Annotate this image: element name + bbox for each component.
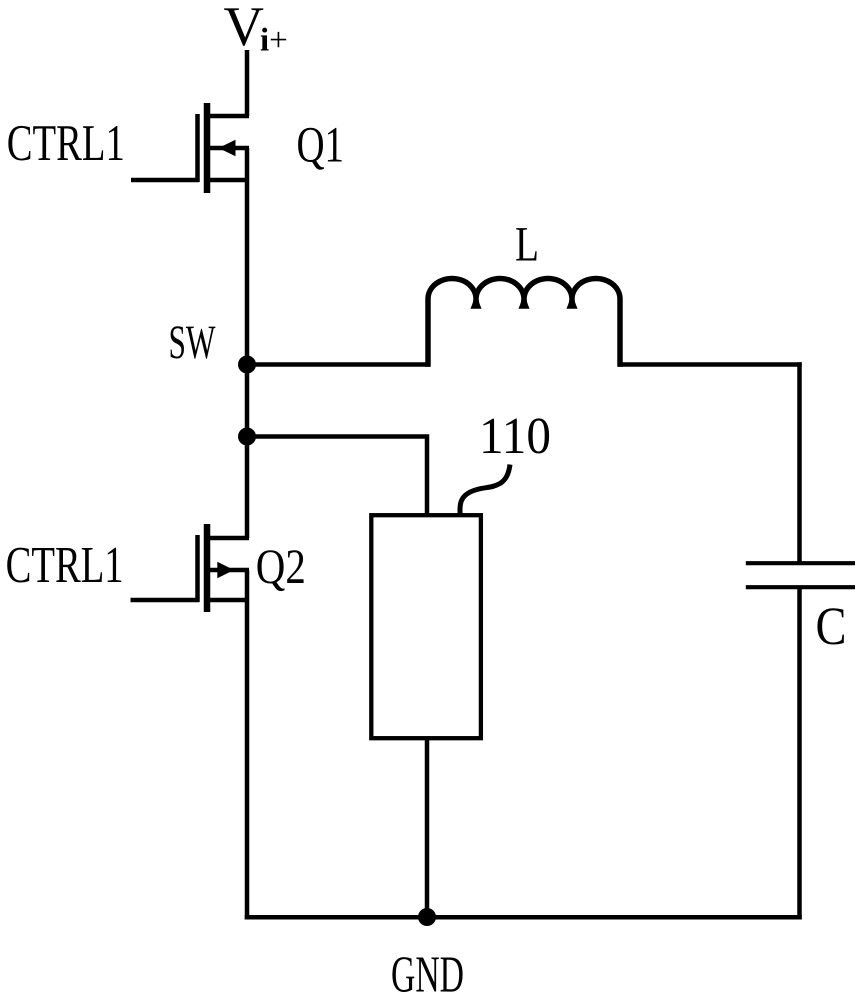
svg-text:110: 110 xyxy=(479,408,551,465)
wire block 110 to GND xyxy=(425,738,430,917)
svg-text:CTRL1: CTRL1 xyxy=(6,537,124,594)
transistor Q1 xyxy=(198,103,250,193)
svg-text:i+: i+ xyxy=(260,23,288,59)
capacitor C xyxy=(746,563,855,587)
node dot below SW xyxy=(238,428,256,446)
svg-text:SW: SW xyxy=(169,316,216,369)
wire inductor to output rail xyxy=(618,362,802,367)
inductor L xyxy=(428,278,620,366)
wire gate Q2 xyxy=(131,598,200,603)
svg-text:Q2: Q2 xyxy=(256,539,306,594)
wire Vi+ to Q1 drain xyxy=(245,50,250,116)
svg-text:CTRL1: CTRL1 xyxy=(7,115,125,172)
block 110 xyxy=(371,515,481,738)
wire SW to inductor xyxy=(247,362,430,367)
svg-text:L: L xyxy=(515,217,539,272)
wire gate Q1 xyxy=(131,178,199,183)
transistor Q2 xyxy=(198,524,250,612)
wire node to block 110 xyxy=(247,437,427,516)
wire output rail to capacitor xyxy=(797,362,802,562)
node SW junction dot xyxy=(238,356,256,374)
svg-text:V: V xyxy=(224,0,264,58)
svg-text:Q1: Q1 xyxy=(297,118,345,174)
wire Q2 source to GND rail xyxy=(245,570,250,920)
node GND junction dot xyxy=(418,908,436,926)
svg-text:C: C xyxy=(816,596,847,656)
label Vi+ xyxy=(224,0,288,59)
svg-text:GND: GND xyxy=(391,946,464,1000)
leader line from 110 to block xyxy=(460,465,510,515)
wire capacitor to GND rail xyxy=(797,588,802,920)
wire Q1 source to Q2 drain xyxy=(245,148,250,538)
wire GND rail xyxy=(245,915,802,920)
